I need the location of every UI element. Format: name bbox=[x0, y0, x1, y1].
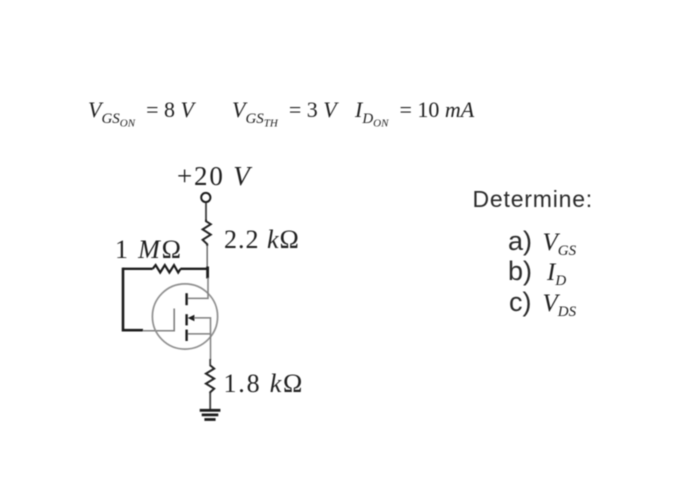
junction drain node bar bbox=[206, 267, 209, 279]
wire gate lead bbox=[143, 330, 175, 332]
text Determine: bbox=[473, 188, 593, 211]
wire drain lead bbox=[188, 278, 208, 299]
resistor R2 1M zigzag bbox=[153, 265, 181, 272]
transistor Q1 middle channel bar bbox=[185, 314, 187, 325]
transistor Q1 body circle bbox=[152, 284, 217, 349]
list item a) V_GS bbox=[508, 229, 532, 254]
wire supply to R1 bbox=[205, 203, 207, 220]
list item c) V_DS bbox=[509, 290, 532, 315]
transistor Q1 drain channel bar bbox=[185, 293, 187, 305]
wire left feedback vertical bbox=[123, 268, 143, 331]
equation I_D(on) = 10 mA bbox=[355, 99, 474, 134]
resistor R3 1.8k zigzag bbox=[206, 365, 214, 393]
wire R3 to ground bbox=[209, 393, 211, 410]
transistor Q1 source channel bar bbox=[185, 330, 187, 341]
transistor Q1 gate electrode bbox=[173, 309, 175, 332]
value label 1 MOhm bbox=[115, 237, 183, 263]
wire top rail right segment bbox=[180, 268, 208, 270]
transistor Q1 substrate arrow bbox=[188, 315, 195, 322]
list item b) I_D bbox=[508, 259, 532, 284]
resistor R1 2.2k zigzag bbox=[203, 220, 211, 247]
wire top rail left segment bbox=[123, 268, 153, 270]
wire R1 to drain junction bbox=[206, 246, 208, 268]
wire R3 top lead bbox=[209, 359, 211, 366]
ground symbol bbox=[200, 409, 221, 412]
wire source to R3 bbox=[210, 334, 212, 360]
value label 2.2 kOhm bbox=[224, 227, 300, 253]
value label 1.8 kOhm bbox=[224, 371, 305, 397]
node +20V supply label bbox=[177, 163, 251, 190]
node +20V terminal circle bbox=[201, 193, 210, 202]
wire body lead bbox=[194, 318, 211, 334]
equation V_GS(TH) = 3 V bbox=[232, 99, 337, 134]
wire source lead bbox=[188, 333, 211, 335]
equation V_GS(on) = 8 V bbox=[88, 99, 194, 134]
